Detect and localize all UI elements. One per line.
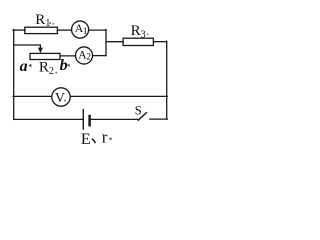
wire voltmeter left (13, 95, 52, 97)
label R3 comma artifact (147, 33, 149, 35)
battery E short plate (88, 116, 91, 125)
svg-text:A2: A2 (78, 50, 91, 62)
svg-text:b: b (60, 57, 68, 74)
wire junction vertical (105, 30, 107, 56)
label enumeration comma (92, 139, 96, 144)
wire battery to switch (91, 118, 139, 120)
svg-text:r: r (102, 127, 108, 146)
wire rheostat feed (14, 45, 41, 50)
wire R1 to A1 (57, 29, 71, 31)
label R1 dot2 artifact (52, 23, 54, 25)
wire left rail (13, 30, 15, 120)
wire voltmeter right (70, 95, 167, 97)
wire top left (13, 29, 25, 31)
switch S blade (138, 113, 146, 121)
label b arrow artifact (67, 64, 70, 67)
rheostat R2 (30, 53, 60, 59)
label r arrow artifact (109, 137, 112, 140)
svg-text:S: S (135, 103, 142, 117)
wire R2 to A2 (60, 55, 75, 57)
label a arrow artifact (28, 64, 31, 67)
label V dot artifact (64, 100, 66, 102)
ammeter A2 (75, 47, 92, 64)
voltmeter V (52, 88, 70, 106)
wire A2 to junction (93, 55, 106, 57)
wire junction to R3 (106, 41, 123, 43)
battery E long plate (82, 110, 84, 129)
resistor R3 (123, 38, 153, 45)
rheostat slider arrow head (38, 48, 43, 54)
ammeter A1 (72, 21, 89, 38)
wire bottom left (14, 118, 84, 120)
svg-text:E: E (81, 131, 91, 147)
svg-text:a: a (20, 58, 28, 75)
label R2 dot artifact (55, 72, 57, 74)
label R1 dots artifact (49, 22, 51, 24)
wire R3 to right rail (153, 41, 166, 43)
wire switch to right corner (150, 118, 168, 120)
resistor R1 (25, 27, 58, 33)
svg-text:V: V (55, 91, 65, 106)
wire A1 to junction (89, 29, 106, 31)
wire right rail (166, 41, 168, 119)
